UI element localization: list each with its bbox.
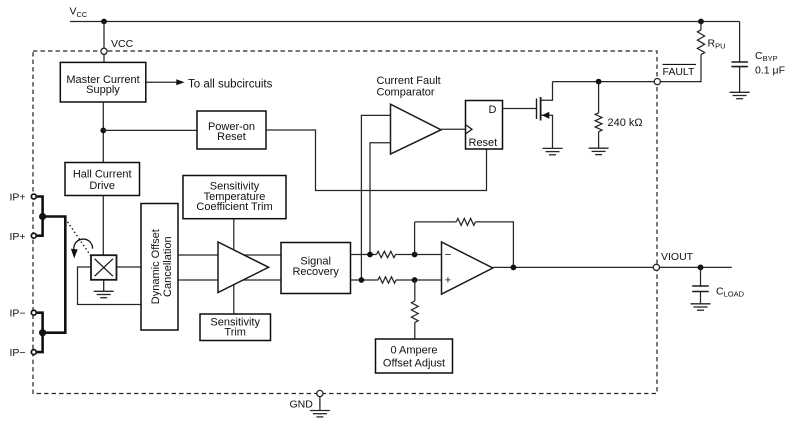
wire resistor to op-amp plus input	[396, 279, 442, 281]
svg-text:IP−: IP−	[10, 347, 26, 359]
block Dynamic Offset Cancellation	[141, 204, 178, 331]
svg-text:−: −	[445, 249, 451, 261]
svg-text:+: +	[445, 275, 451, 287]
ground Hall element	[94, 280, 114, 298]
svg-text:Reset: Reset	[469, 137, 498, 149]
resistor R_PU	[697, 22, 725, 55]
wire to Power-on Reset	[103, 129, 197, 131]
capacitor C_BYP	[731, 22, 785, 93]
svg-text:Reset: Reset	[217, 131, 246, 143]
svg-text:Supply: Supply	[86, 84, 120, 96]
pin VCC	[101, 48, 107, 54]
pin IP- (upper)	[10, 308, 37, 320]
svg-text:Hall Current: Hall Current	[73, 169, 132, 181]
wire Hall element left output loop	[78, 267, 142, 305]
wire feedback right leg	[475, 222, 513, 268]
block Signal Recovery	[281, 243, 351, 294]
svg-text:IP+: IP+	[10, 192, 26, 204]
label Current Fault Comparator	[377, 75, 441, 99]
wire VCC top rail	[70, 21, 740, 23]
Hall element X1	[91, 255, 117, 280]
flux coupling dotted arrow	[68, 222, 92, 256]
block Power-on Reset	[197, 111, 266, 149]
wire flip-flop D output to transistor gate	[503, 108, 537, 110]
pin VIOUT	[653, 264, 659, 270]
svg-text:CBYP: CBYP	[755, 50, 778, 63]
junction output / feedback	[511, 265, 517, 271]
svg-text:Trim: Trim	[224, 327, 246, 339]
svg-text:To all subcircuits: To all subcircuits	[188, 78, 273, 90]
junction C_LOAD tap	[698, 265, 704, 271]
svg-text:Cancellation: Cancellation	[162, 236, 174, 297]
block Sensitivity Trim	[200, 314, 271, 341]
svg-text:VIOUT: VIOUT	[661, 251, 694, 263]
junction IP- bus	[39, 329, 46, 336]
wire primary conductor IP+ bus bar	[37, 197, 43, 236]
wire Hall Current Drive to Hall element	[102, 196, 104, 256]
svg-text:Coefficient Trim: Coefficient Trim	[196, 201, 272, 213]
ground GND pin	[310, 397, 330, 417]
amplifier A1	[218, 242, 269, 293]
junction plus node / offset adjust	[412, 277, 418, 283]
ground transistor source	[543, 148, 563, 154]
chip boundary (dashed package outline)	[33, 51, 657, 394]
wire comparator tap B (to minus path)	[370, 143, 391, 255]
comparator U1	[391, 104, 442, 154]
transistor Q1 (open-drain NMOS)	[537, 82, 553, 149]
svg-text:0.1 μF: 0.1 μF	[755, 64, 785, 76]
wire VCC drop to pin	[103, 22, 105, 49]
svg-text:Dynamic Offset: Dynamic Offset	[150, 229, 162, 304]
wire resistor to op-amp minus input	[396, 254, 442, 256]
wire feedback top	[415, 221, 457, 223]
wire feedback left leg	[414, 222, 416, 255]
op-amp A2	[442, 242, 493, 294]
wire primary conductor loop	[43, 217, 66, 333]
wire trim line through amplifier	[233, 219, 235, 314]
wire Power-on Reset output to flip-flop Reset	[266, 130, 487, 191]
svg-text:240 kΩ: 240 kΩ	[608, 117, 643, 129]
junction tap A on plus path	[359, 277, 365, 283]
junction VCC rail / R_PU tap	[698, 19, 704, 25]
pin GND	[290, 390, 324, 410]
svg-text:Drive: Drive	[89, 180, 115, 192]
block Master Current Supply	[60, 62, 146, 102]
svg-text:Comparator: Comparator	[377, 87, 435, 99]
wire primary conductor IP- bus bar	[37, 313, 43, 352]
junction IP+ bus	[39, 213, 46, 220]
junction 240k tap	[596, 79, 602, 85]
pin IP+ (lower)	[10, 231, 37, 243]
wire Dynamic Offset Cancellation to amp (lower)	[178, 279, 281, 281]
resistor offset adjust	[411, 301, 418, 323]
junction supply branch to Power-on Reset	[100, 127, 106, 133]
wire Signal Recovery lower output (plus path)	[351, 279, 379, 281]
wire Signal Recovery upper output (minus path)	[351, 254, 377, 256]
pin IP+ (upper)	[10, 192, 37, 204]
svg-text:VCC: VCC	[111, 38, 134, 50]
wire fault drain rail	[553, 81, 655, 83]
resistor feedback	[456, 218, 475, 225]
svg-text:0 Ampere: 0 Ampere	[390, 345, 437, 357]
wire Hall element right output	[117, 266, 142, 268]
wire comparator tap A (to plus path)	[361, 115, 390, 280]
wire VIOUT external	[660, 266, 732, 268]
svg-text:RPU: RPU	[708, 38, 726, 51]
junction tap B on minus path	[367, 252, 373, 258]
pin FAULT (active low)	[654, 64, 696, 84]
wire offset adjust resistor lower lead	[414, 323, 416, 340]
wire arrow to all subcircuits	[146, 78, 273, 90]
svg-text:Current Fault: Current Fault	[377, 75, 441, 87]
svg-text:FAULT: FAULT	[663, 66, 695, 78]
wire FAULT pin to R_PU	[660, 55, 701, 82]
svg-text:IP−: IP−	[10, 308, 26, 320]
junction VCC rail / VCC pin drop	[101, 19, 107, 25]
block Sensitivity Temperature Coefficient Trim	[183, 176, 286, 219]
block 0 Ampere Offset Adjust	[376, 339, 453, 373]
resistor minus input	[377, 251, 396, 257]
pin IP- (lower)	[10, 347, 37, 359]
block Hall Current Drive	[65, 163, 140, 196]
svg-text:CLOAD: CLOAD	[716, 286, 745, 299]
resistor 240 kOhm	[595, 82, 642, 149]
flux rotation arc arrow	[71, 239, 93, 258]
wire VCC pin to Master Current Supply	[103, 55, 105, 63]
wire Dynamic Offset Cancellation to amp (upper)	[178, 254, 281, 256]
wire comparator output to flip-flop clock	[441, 128, 466, 130]
svg-text:Recovery: Recovery	[292, 266, 339, 278]
wire op-amp output to VIOUT pin	[493, 266, 654, 268]
svg-text:D: D	[489, 104, 497, 116]
ground 240k resistor	[589, 148, 609, 154]
svg-text:Offset Adjust: Offset Adjust	[383, 357, 445, 369]
ground C_LOAD	[691, 304, 711, 310]
capacitor C_LOAD	[692, 267, 744, 303]
flip-flop U2 (D latch)	[466, 101, 503, 150]
svg-text:GND: GND	[290, 399, 314, 411]
ground C_BYP	[730, 92, 750, 98]
resistor plus input	[378, 277, 396, 283]
junction minus node / feedback	[412, 252, 418, 258]
wire offset adjust resistor upper lead	[414, 280, 416, 301]
svg-text:IP+: IP+	[10, 231, 26, 243]
wire Master Current Supply to Hall Current Drive	[102, 102, 104, 163]
svg-text:VCC: VCC	[70, 6, 88, 19]
